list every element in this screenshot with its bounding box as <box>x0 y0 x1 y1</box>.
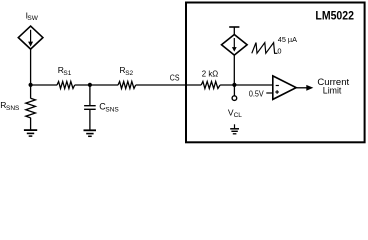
wire 0.5V to comparator minus input <box>266 92 273 94</box>
svg-text:S1: S1 <box>63 70 71 77</box>
node A junction <box>29 83 33 87</box>
resistor 2k <box>201 82 220 89</box>
wire node C to VCL terminal <box>233 85 235 96</box>
resistor RS2 <box>118 82 136 89</box>
wire node B to CSNS <box>89 85 91 105</box>
svg-text:SNS: SNS <box>6 105 20 112</box>
node C junction <box>232 83 236 87</box>
supply rail T bar <box>229 27 239 35</box>
node B junction <box>88 83 92 87</box>
wire ISW to node A <box>30 49 32 85</box>
VCL label <box>228 108 242 120</box>
svg-text:LM5022: LM5022 <box>315 9 354 23</box>
label Current Limit <box>317 77 349 96</box>
svg-text:CL: CL <box>234 112 243 119</box>
ground (RSNS) <box>24 130 37 136</box>
svg-text:Limit: Limit <box>323 86 342 96</box>
terminal VCL circle <box>232 96 237 101</box>
ground (CSNS) <box>84 130 97 136</box>
wire CSNS to ground <box>89 109 91 130</box>
svg-text:45 µA: 45 µA <box>278 35 297 44</box>
capacitor CSNS <box>84 106 96 110</box>
current source ISW label <box>26 11 39 23</box>
resistor RS1 <box>57 82 75 89</box>
svg-text:CS: CS <box>170 73 180 83</box>
resistor RSNS label <box>0 100 20 112</box>
wire node A to RS1 <box>31 84 58 86</box>
wire RSNS to ground <box>30 118 32 130</box>
resistor RS1 label <box>58 65 72 77</box>
wire RS2 to 2k resistor (CS pin) <box>136 84 202 86</box>
svg-text:0: 0 <box>277 47 281 56</box>
wire RS1 to RS2 <box>75 84 119 86</box>
resistor RS2 label <box>119 65 133 77</box>
wire current source to node C <box>233 55 235 85</box>
svg-text:SW: SW <box>27 15 38 22</box>
current source ISW <box>18 26 43 49</box>
comparator plus sign <box>275 90 279 94</box>
comparator U1 <box>273 76 296 100</box>
current source 45uA <box>222 35 248 56</box>
ground (VCL) <box>230 124 239 134</box>
sawtooth waveform <box>252 43 278 54</box>
comparator minus sign <box>276 85 279 87</box>
svg-text:SNS: SNS <box>105 107 119 114</box>
svg-text:S2: S2 <box>125 70 133 77</box>
wire 2k to comparator <box>220 84 273 86</box>
resistor RSNS <box>26 98 36 118</box>
output wire with arrow <box>296 85 313 91</box>
capacitor CSNS label <box>99 101 119 113</box>
LM5022 box <box>186 3 365 143</box>
svg-text:2 kΩ: 2 kΩ <box>202 69 219 79</box>
svg-text:0.5V: 0.5V <box>249 89 264 99</box>
wire node A to RSNS <box>30 85 32 98</box>
